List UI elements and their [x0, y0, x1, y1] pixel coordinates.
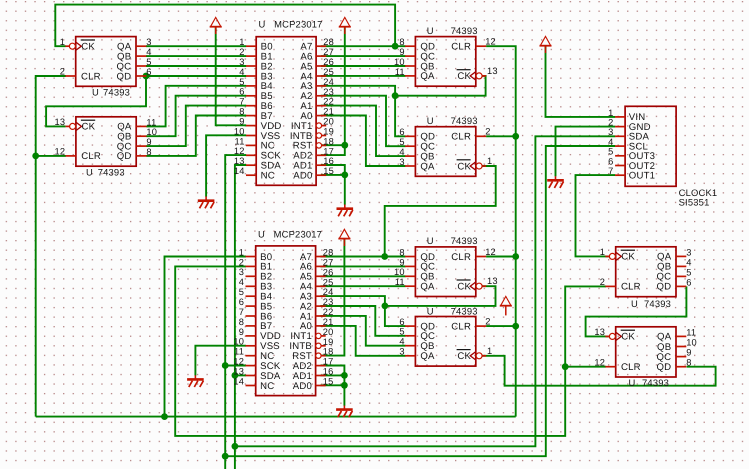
svg-text:11: 11: [395, 277, 405, 287]
svg-text:CK: CK: [457, 282, 471, 293]
U10 pin 19 (INTB) stub: [321, 345, 325, 347]
wire net A7: top rail to U1.CK: [55, 5, 395, 47]
node junction A3b/U5.CK: [382, 303, 389, 310]
power VCC arrow (MCP2 RST): [338, 229, 350, 246]
node junction CLR/U5: [512, 253, 519, 260]
wire net SDA to MCP2.SDA: [235, 374, 246, 376]
U9 pin 1 (B0) stub: [246, 45, 256, 47]
svg-text:9: 9: [146, 137, 151, 147]
svg-text:74393: 74393: [98, 167, 125, 178]
node junction B3/U1.QD chain: [143, 73, 150, 80]
svg-text:1: 1: [60, 37, 65, 47]
U10 pin 14 (NC) stub: [246, 385, 256, 387]
svg-text:3: 3: [399, 347, 404, 357]
svg-text:1: 1: [487, 156, 492, 166]
wire net B1: U1.QB to MCP1.B1: [146, 55, 246, 57]
svg-text:10: 10: [234, 126, 245, 136]
svg-text:QA: QA: [420, 161, 435, 172]
U9 pin 13 (SDA) stub: [246, 164, 256, 166]
svg-text:CK: CK: [82, 122, 96, 133]
wire net A0b: MCP2.A0 to U6.QA: [320, 326, 405, 356]
svg-text:8: 8: [399, 247, 404, 257]
svg-text:26: 26: [323, 57, 334, 67]
svg-text:3: 3: [146, 37, 151, 47]
wire net VCC to MCP1.VDD: [216, 27, 247, 125]
svg-text:2: 2: [608, 118, 613, 128]
svg-text:23: 23: [323, 87, 334, 97]
node junction AD0b: [341, 382, 348, 389]
U10 pin 24 (A3) stub: [316, 295, 326, 297]
svg-text:QD: QD: [117, 151, 132, 162]
svg-text:6: 6: [239, 87, 244, 97]
U10 pin 16 (AD1) stub: [316, 375, 326, 377]
svg-text:U: U: [629, 377, 636, 388]
svg-text:5: 5: [399, 327, 404, 337]
svg-text:4: 4: [399, 337, 404, 347]
svg-text:4: 4: [239, 277, 244, 287]
svg-text:28: 28: [323, 248, 334, 258]
power VCC arrow (MCP1 RST): [339, 17, 351, 34]
wire net SDA bus: [235, 165, 246, 469]
svg-text:4: 4: [686, 257, 691, 267]
power VCC arrow (MCP1 VDD): [210, 17, 222, 34]
svg-text:U: U: [427, 235, 434, 246]
U10 pin 28 (A7) stub: [316, 256, 326, 258]
U9 pin 22 (A1) stub: [316, 105, 326, 107]
node junction SDA/MCP2.SDA: [232, 372, 239, 379]
svg-text:U: U: [427, 115, 434, 126]
svg-text:6: 6: [399, 317, 404, 327]
svg-text:6: 6: [608, 156, 613, 166]
svg-text:9: 9: [239, 117, 244, 127]
wire net SCK to MCP2.SCK: [225, 365, 246, 367]
svg-text:7: 7: [608, 166, 613, 176]
svg-text:CLR: CLR: [451, 321, 471, 332]
wire net CLR78: U8.CLR tap: [565, 366, 606, 368]
svg-text:AD0: AD0: [293, 381, 312, 392]
svg-text:16: 16: [323, 156, 334, 166]
svg-text:24: 24: [323, 287, 334, 297]
svg-text:CK: CK: [81, 42, 95, 53]
svg-text:7: 7: [239, 97, 244, 107]
svg-text:13: 13: [487, 66, 498, 76]
svg-text:CK: CK: [457, 351, 471, 362]
node junction A3/U3.CK: [392, 92, 399, 99]
U9 pin 15 (AD0) stub: [316, 174, 326, 176]
svg-text:9: 9: [239, 327, 244, 337]
svg-text:SI5351: SI5351: [679, 197, 710, 208]
svg-text:CLR: CLR: [451, 132, 471, 143]
CLOCK1 pin 2 (GND) stub: [615, 126, 625, 128]
U10 pin 27 (A6) stub: [316, 265, 326, 267]
svg-text:U: U: [86, 167, 93, 178]
wire net U4CK: U4.CK to junction on A7' row: [385, 166, 496, 257]
svg-text:8: 8: [399, 37, 404, 47]
svg-text:18: 18: [323, 136, 334, 146]
wire net A7b: MCP2.A7 to U5.QD: [320, 256, 405, 258]
ground GND1 (MCP1 VSS): [198, 196, 215, 208]
wire net CLR: U5.CLR tap: [486, 256, 516, 258]
svg-text:27: 27: [323, 257, 334, 267]
svg-text:15: 15: [323, 166, 334, 176]
U10 pin 3 (B2) stub: [246, 275, 256, 277]
U9 pin 19 (INTB) stub: [322, 135, 326, 137]
wire net MCP2.AD0 tap: [320, 384, 344, 386]
svg-text:5: 5: [239, 77, 244, 87]
wire net B5: U2.QB to MCP1.B5: [146, 96, 246, 137]
svg-text:6: 6: [239, 297, 244, 307]
svg-text:20: 20: [323, 117, 334, 127]
wire net A6b: MCP2.A6 to U5.QC: [320, 265, 405, 267]
svg-text:1: 1: [608, 108, 613, 118]
svg-text:17: 17: [323, 146, 334, 156]
wire net A2b: MCP2.A2 to U6.QC: [320, 306, 405, 336]
wire net CLR: U1.CLR left drop: [36, 76, 66, 417]
svg-text:CLR: CLR: [81, 71, 101, 82]
svg-text:2: 2: [485, 127, 490, 137]
port expander U9 MCP23017 (top): [234, 19, 334, 186]
svg-text:9: 9: [686, 348, 691, 358]
svg-text:U: U: [258, 228, 265, 239]
wire net A6: MCP1.A6 to U3.QC: [321, 55, 406, 57]
wire net CLR: U4.CLR tap: [486, 135, 516, 137]
wire net MCP2.AD2 to ground: [320, 366, 344, 386]
svg-text:74393: 74393: [644, 298, 671, 309]
wire ground stem MCP1.AD0: [344, 175, 346, 205]
svg-text:1: 1: [487, 346, 492, 356]
wire net CLR78: MCP2.B1 to U7.CLR: [175, 266, 606, 436]
CLOCK1 pin 7 (OUT1) stub: [615, 174, 625, 176]
ground GND2 (MCP1 AD0/AD1): [337, 205, 354, 217]
U10 pin 1 (B0) stub: [246, 256, 256, 258]
CLOCK1 pin 1 (VIN) stub: [615, 116, 625, 118]
wire net A3b: MCP2.A3 to U6.QD: [320, 296, 405, 326]
svg-text:5: 5: [686, 267, 691, 277]
U10 pin 13 (SDA) stub: [246, 375, 256, 377]
svg-text:NC: NC: [261, 171, 275, 182]
ground GND5 (MCP2 AD pins): [336, 406, 353, 418]
counter U8 74393 (bottom-right, second): [594, 327, 697, 388]
U9 pin 12 (SCK) stub: [246, 154, 256, 156]
svg-text:3: 3: [239, 57, 244, 67]
svg-text:5: 5: [146, 57, 151, 67]
svg-text:19: 19: [323, 337, 334, 347]
U9 pin 20 (INT1) stub: [322, 125, 326, 127]
wire net A2: MCP1.A2 to U4.QC: [321, 96, 406, 147]
U10 pin 12 (SCK) stub: [246, 365, 256, 367]
svg-text:CK: CK: [457, 71, 471, 82]
U10 pin 25 (A4) stub: [316, 285, 326, 287]
svg-text:MCP23017: MCP23017: [274, 228, 323, 239]
wire net VCC to MCP2.RST: [321, 239, 344, 356]
svg-text:2: 2: [239, 257, 244, 267]
U9 pin 2 (B1) stub: [246, 55, 256, 57]
wire net A3b branch to U5.CK: [385, 286, 496, 306]
U10 pin 8 (B7) stub: [246, 325, 256, 327]
svg-text:11: 11: [395, 67, 405, 77]
svg-text:5: 5: [608, 147, 613, 157]
U9 pin 23 (A2) stub: [316, 95, 326, 97]
U10 pin 7 (B6) stub: [246, 315, 256, 317]
svg-text:21: 21: [323, 107, 334, 117]
svg-text:12: 12: [55, 147, 66, 157]
wire net B2: U1.QC to MCP1.B2: [146, 65, 246, 67]
svg-text:13: 13: [55, 117, 66, 127]
svg-text:4: 4: [146, 47, 151, 57]
svg-text:2: 2: [239, 47, 244, 57]
node junction AD1b: [341, 372, 348, 379]
svg-text:1: 1: [600, 247, 605, 257]
svg-text:8: 8: [686, 358, 691, 368]
U10 pin 26 (A5) stub: [316, 275, 326, 277]
node junction AD1/AD0: [341, 172, 348, 179]
U9 pin 3 (B2) stub: [246, 65, 256, 67]
svg-text:22: 22: [323, 307, 334, 317]
svg-text:5: 5: [239, 287, 244, 297]
wire net CLR: MCP2.B0 drop: [165, 257, 247, 417]
wire net A1b: MCP2.A1 to U6.QB: [320, 316, 405, 346]
svg-text:12: 12: [234, 146, 245, 156]
node junction CLR78/U8: [562, 363, 569, 370]
svg-text:74393: 74393: [451, 25, 478, 36]
svg-text:3: 3: [239, 267, 244, 277]
svg-text:U: U: [631, 298, 638, 309]
U9 pin 25 (A4) stub: [316, 75, 326, 77]
U10 pin 6 (B5) stub: [246, 305, 256, 307]
counter U6 74393 (middle bottom): [399, 305, 492, 366]
U9 pin 8 (B7) stub: [246, 115, 256, 117]
U9 pin 11 (NC) stub: [246, 144, 256, 146]
svg-text:QA: QA: [420, 71, 435, 82]
svg-text:4: 4: [239, 67, 244, 77]
CLOCK1 pin 6 (OUT2) stub: [615, 165, 625, 167]
wire net VCC to CLOCK1.VIN: [546, 46, 616, 117]
node junction SCK/MCP2.SCK: [222, 362, 229, 369]
svg-text:3: 3: [608, 127, 613, 137]
U10 pin 21 (A0) stub: [316, 325, 326, 327]
svg-text:1: 1: [239, 37, 244, 47]
svg-text:QD: QD: [657, 362, 672, 373]
U10 pin 23 (A2) stub: [316, 305, 326, 307]
svg-text:QD: QD: [117, 71, 132, 82]
svg-text:74393: 74393: [451, 305, 478, 316]
svg-text:9: 9: [399, 47, 404, 57]
wire net A0: MCP1.A0 to U4.QA: [321, 116, 406, 167]
node junction RST1/VCC: [341, 142, 348, 149]
counter U2 74393 (left, second): [55, 117, 158, 178]
wire net CLR: U3.CLR down the right: [486, 46, 516, 416]
counter U4 74393 (middle, second): [399, 115, 492, 176]
U10 pin 10 (VSS) stub: [246, 345, 256, 347]
svg-text:7: 7: [239, 307, 244, 317]
svg-text:24: 24: [323, 77, 334, 87]
wire net OUT1: CLOCK1.OUT1 to U7.CK: [576, 175, 616, 256]
U9 pin 14 (NC) stub: [246, 174, 256, 176]
node junction CLR/U6: [512, 323, 519, 330]
wire net A5b: MCP2.A5 to U5.QB: [320, 275, 405, 277]
wire net A3: MCP1.A3 to U4.QD: [321, 86, 406, 137]
svg-text:25: 25: [323, 67, 334, 77]
wire ground stem MCP2.AD0: [343, 385, 345, 405]
wire net CLR bottom rail: [36, 416, 516, 418]
svg-text:15: 15: [323, 377, 334, 387]
wire net MCP1.AD0 to ground: [321, 174, 345, 176]
wire net SDA rail to CLOCK1.SDA: [235, 136, 615, 446]
U9 pin 5 (B4) stub: [246, 85, 256, 87]
wire net GND: MCP2.VSS to ground: [195, 346, 246, 376]
wire net VCC to MCP1.RST: [344, 27, 346, 145]
U9 pin 27 (A6) stub: [316, 55, 326, 57]
U9 pin 4 (B3) stub: [246, 75, 256, 77]
wire net B7: U2.QD to MCP1.B7: [146, 116, 246, 156]
svg-text:13: 13: [233, 366, 244, 376]
svg-text:27: 27: [323, 47, 334, 57]
svg-text:74393: 74393: [451, 235, 478, 246]
svg-text:10: 10: [394, 57, 405, 67]
svg-text:10: 10: [686, 337, 697, 347]
node junction CLR/B0 rail: [161, 413, 168, 420]
svg-text:6: 6: [146, 67, 151, 77]
wire net A1: MCP1.A1 to U4.QB: [321, 106, 406, 157]
wire net MCP2.AD1 tap: [320, 374, 344, 376]
CLOCK1 pin 4 (SCL) stub: [615, 145, 625, 147]
wire net B4: U2.QA to MCP1.B4: [146, 86, 246, 127]
svg-text:13: 13: [594, 327, 605, 337]
U9 pin 18 (RST) stub: [322, 144, 326, 146]
svg-text:CK: CK: [457, 161, 471, 172]
svg-text:CLR: CLR: [451, 252, 471, 263]
wire net SCK rail to CLOCK1.SCL: [225, 146, 615, 456]
power VCC arrow (U6 area): [500, 296, 512, 315]
svg-text:12: 12: [233, 357, 244, 367]
U10 pin 9 (VDD) stub: [246, 335, 256, 337]
node junction CLR/U4: [512, 133, 519, 140]
wire net B6: U2.QC to MCP1.B6: [146, 106, 246, 147]
U9 pin 24 (A3) stub: [316, 85, 326, 87]
wire net A3 branch to U3.CK: [395, 76, 486, 96]
svg-text:U: U: [92, 86, 99, 97]
svg-text:U: U: [259, 19, 266, 30]
wire net U8.QD to U6.CK: [482, 356, 715, 386]
U9 pin 6 (B5) stub: [246, 95, 256, 97]
svg-text:12: 12: [485, 247, 496, 257]
wire net A4: MCP1.A4 to U3.QA: [321, 75, 406, 77]
U9 pin 7 (B6) stub: [246, 105, 256, 107]
wire net MCP1.AD1 to ground: [321, 165, 345, 175]
svg-text:MCP23017: MCP23017: [274, 19, 323, 30]
svg-text:74393: 74393: [642, 377, 669, 388]
svg-text:8: 8: [239, 107, 244, 117]
U9 pin 9 (VDD) stub: [246, 125, 256, 127]
svg-text:NC: NC: [260, 381, 274, 392]
port expander U10 MCP23017 (bottom): [233, 228, 333, 395]
svg-text:CLR: CLR: [451, 42, 471, 53]
U10 pin 5 (B4) stub: [246, 295, 256, 297]
svg-text:QD: QD: [657, 282, 672, 293]
svg-text:74393: 74393: [451, 115, 478, 126]
wire chain U7.QD to U8.CK: [586, 286, 687, 336]
U10 pin 15 (AD0) stub: [316, 385, 326, 387]
svg-text:CK: CK: [621, 332, 635, 343]
wire net A5: MCP1.A5 to U3.QB: [321, 65, 406, 67]
svg-text:23: 23: [323, 297, 334, 307]
svg-text:18: 18: [323, 347, 334, 357]
svg-text:4: 4: [399, 147, 404, 157]
svg-text:2: 2: [600, 277, 605, 287]
svg-text:11: 11: [686, 327, 696, 337]
CLOCK1 pin 3 (SDA) stub: [615, 135, 625, 137]
U10 pin 17 (AD2) stub: [316, 365, 326, 367]
svg-text:11: 11: [146, 117, 156, 127]
U9 pin 10 (VSS) stub: [246, 135, 256, 137]
svg-text:9: 9: [399, 257, 404, 267]
wire net CLR: U6.CLR tap: [486, 325, 516, 327]
wire net SCK bus: [225, 155, 246, 469]
ground GND4 (MCP2 VSS): [187, 375, 204, 387]
U10 pin 22 (A1) stub: [316, 315, 326, 317]
svg-text:13: 13: [487, 276, 498, 286]
svg-text:14: 14: [234, 166, 245, 176]
svg-text:CK: CK: [621, 252, 635, 263]
svg-text:28: 28: [323, 37, 334, 47]
U9 pin 21 (A0) stub: [316, 115, 326, 117]
wire net A7: MCP1.A7 to U3.QD: [321, 45, 406, 47]
svg-text:CLR: CLR: [81, 151, 101, 162]
svg-text:10: 10: [146, 127, 157, 137]
wire net B3: U1.QD to MCP1.B3: [146, 75, 246, 77]
svg-text:3: 3: [399, 157, 404, 167]
svg-text:U: U: [427, 25, 434, 36]
svg-text:11: 11: [235, 136, 245, 146]
svg-text:CLR: CLR: [621, 362, 641, 373]
svg-text:21: 21: [323, 317, 334, 327]
svg-text:2: 2: [60, 67, 65, 77]
counter U7 74393 (bottom-right, first): [600, 247, 692, 309]
svg-text:12: 12: [594, 357, 605, 367]
U9 pin 26 (A5) stub: [316, 65, 326, 67]
U10 pin 20 (INT1) stub: [321, 335, 325, 337]
svg-text:14: 14: [233, 376, 244, 386]
svg-text:QA: QA: [420, 282, 435, 293]
svg-text:6: 6: [686, 277, 691, 287]
wire net B0: U1.QA to MCP1.B0: [146, 45, 246, 47]
node junction A7/top-rail: [392, 43, 399, 50]
U10 pin 18 (RST) stub: [321, 355, 325, 357]
U10 pin 2 (B1) stub: [246, 265, 256, 267]
wire chain U1.QD to U2.CK: [46, 76, 146, 126]
wire net GND: CLOCK1.GND to ground: [556, 127, 616, 177]
svg-text:4: 4: [608, 137, 613, 147]
svg-text:AD0: AD0: [293, 171, 312, 182]
svg-text:20: 20: [323, 327, 334, 337]
node junction SDA rail: [232, 443, 239, 450]
CLOCK1 pin 5 (OUT3) stub: [615, 155, 625, 157]
wire net GND: MCP1.VSS to ground: [206, 135, 246, 196]
svg-text:OUT1: OUT1: [629, 171, 655, 182]
svg-text:1: 1: [239, 247, 244, 257]
svg-text:10: 10: [233, 337, 244, 347]
wire net CLR: U2.CLR tap: [36, 155, 66, 157]
U9 pin 16 (AD1) stub: [316, 164, 326, 166]
svg-text:17: 17: [323, 357, 334, 367]
counter U3 74393 (middle top): [394, 25, 498, 86]
counter U5 74393 (middle, third): [394, 235, 498, 296]
svg-text:74393: 74393: [103, 86, 130, 97]
U10 pin 4 (B3) stub: [246, 285, 256, 287]
svg-text:8: 8: [146, 147, 151, 157]
svg-text:16: 16: [323, 367, 334, 377]
counter U1 74393 (top-left): [60, 37, 152, 98]
